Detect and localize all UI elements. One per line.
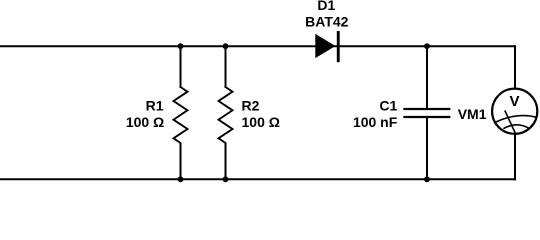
svg-text:BAT42: BAT42 [305,13,349,29]
diode D1 [316,31,340,62]
svg-text:D1: D1 [317,0,335,13]
node junction C1-bottom [424,176,430,182]
capacitor C1 [403,109,450,117]
svg-text:C1: C1 [379,98,397,114]
node junction R2-bottom [223,176,229,182]
wire right vertical (voltmeter to bottom rail) [514,134,516,181]
wire bottom rail [0,178,516,180]
svg-text:V: V [509,93,519,110]
wire C1 branch (bottom lead) [426,117,428,179]
svg-text:100 Ω: 100 Ω [126,114,164,130]
svg-text:VM1: VM1 [458,106,487,122]
wire C1 branch (top lead) [426,46,428,109]
node junction R1-top [178,43,184,49]
wire R1 branch (top lead) [180,46,182,88]
svg-text:100 Ω: 100 Ω [242,114,280,130]
wire top rail [0,45,515,47]
node junction R2-top [223,43,229,49]
resistor R1 [174,87,188,143]
wire right vertical (top, to voltmeter) [514,45,516,89]
wire R1 branch (bottom lead) [180,143,182,180]
node junction C1-top [424,43,430,49]
svg-text:R1: R1 [146,98,164,114]
node junction R1-bottom [178,176,184,182]
svg-text:R2: R2 [242,98,260,114]
resistor R2 [219,87,233,143]
wire R2 branch (bottom lead) [225,143,227,180]
voltmeter VM1 [492,89,537,134]
wire R2 branch (top lead) [225,46,227,88]
svg-text:100 nF: 100 nF [353,114,398,130]
